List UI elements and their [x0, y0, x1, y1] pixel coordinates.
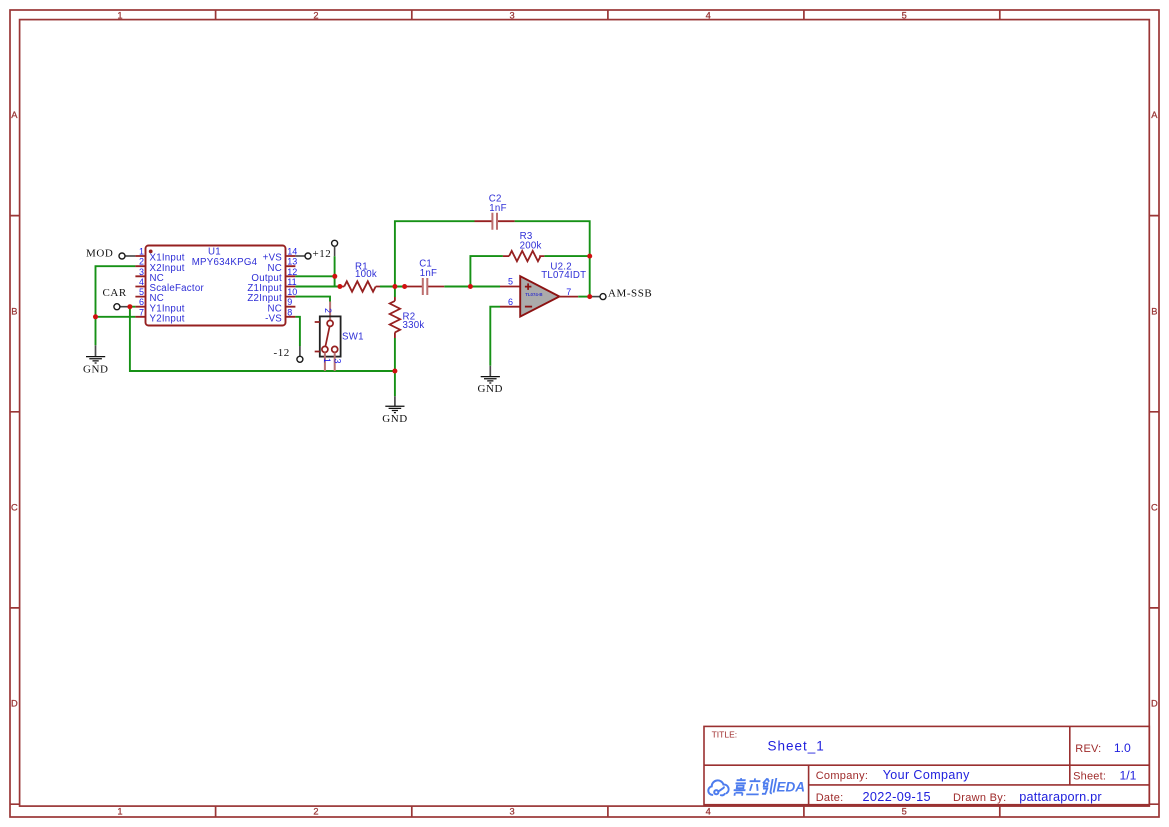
- wire pin2/pin7 of U1 to GND net: [96, 266, 136, 345]
- svg-text:D: D: [1151, 699, 1158, 709]
- svg-text:-VS: -VS: [265, 313, 282, 324]
- title block: [704, 726, 1149, 804]
- wire CAR to pin6 and down to bottom rail: [130, 307, 395, 371]
- svg-text:TL074-B: TL074-B: [525, 292, 542, 297]
- svg-text:Date:: Date:: [816, 792, 844, 804]
- svg-text:7: 7: [139, 307, 144, 317]
- svg-text:EDA: EDA: [777, 780, 806, 795]
- capacitor C1: [405, 258, 445, 295]
- capacitor C2: [475, 194, 515, 230]
- svg-text:TL074IDT: TL074IDT: [541, 270, 586, 281]
- svg-text:14: 14: [287, 247, 297, 257]
- svg-text:8: 8: [287, 307, 292, 317]
- port -12: [274, 346, 303, 362]
- svg-text:3: 3: [510, 11, 515, 21]
- svg-text:3: 3: [333, 358, 343, 363]
- resistor R1: [340, 261, 380, 291]
- svg-text:1: 1: [322, 358, 332, 363]
- svg-text:200k: 200k: [520, 241, 542, 252]
- port CAR: [103, 287, 130, 310]
- switch SW1: [315, 302, 364, 372]
- svg-text:4: 4: [139, 277, 144, 287]
- wire bottom rail to GND: [394, 371, 396, 396]
- svg-text:2: 2: [139, 257, 144, 267]
- svg-text:100k: 100k: [355, 269, 377, 280]
- svg-text:5: 5: [508, 276, 513, 286]
- wire pin11 Z1Input: [295, 286, 340, 288]
- ground GND (left, under U1): [86, 345, 105, 363]
- svg-text:Sheet:: Sheet:: [1073, 770, 1106, 782]
- wire pin8 -VS to -12: [295, 317, 300, 346]
- port +12 at pin14: [295, 248, 331, 260]
- svg-text:1/1: 1/1: [1120, 768, 1137, 782]
- svg-text:C: C: [1151, 502, 1158, 512]
- svg-text:3: 3: [510, 806, 515, 816]
- ground GND (center, below SW1/R2): [385, 396, 404, 412]
- wire R3 left branch: [470, 256, 503, 286]
- wire pin12 Output: [295, 275, 334, 277]
- svg-text:Drawn By:: Drawn By:: [953, 792, 1006, 804]
- svg-text:TITLE:: TITLE:: [712, 729, 738, 739]
- svg-text:1: 1: [139, 247, 144, 257]
- svg-text:10: 10: [287, 287, 297, 297]
- svg-text:5: 5: [902, 806, 907, 816]
- svg-text:MPY634KPG4: MPY634KPG4: [192, 257, 258, 268]
- svg-text:1: 1: [117, 806, 122, 816]
- port +12 (top terminal): [332, 240, 338, 256]
- svg-text:2: 2: [313, 806, 318, 816]
- ground GND (op-amp): [481, 366, 500, 383]
- svg-text:13: 13: [287, 257, 297, 267]
- svg-text:330k: 330k: [403, 320, 425, 331]
- svg-text:-12: -12: [274, 347, 290, 359]
- wire pin10 Z2Input to SW1 pin2: [295, 297, 330, 302]
- svg-text:6: 6: [508, 297, 513, 307]
- svg-text:MOD: MOD: [86, 248, 113, 260]
- svg-text:1.0: 1.0: [1114, 741, 1131, 755]
- svg-text:A: A: [11, 110, 18, 120]
- svg-text:D: D: [11, 699, 18, 709]
- wire R3 right to output column: [544, 255, 589, 257]
- svg-text:2: 2: [313, 11, 318, 21]
- svg-text:AM-SSB: AM-SSB: [608, 288, 652, 300]
- JLCEDA logo: [708, 780, 728, 795]
- svg-text:12: 12: [287, 267, 297, 277]
- svg-text:4: 4: [706, 806, 711, 816]
- resistor R2: [390, 287, 425, 372]
- svg-text:7: 7: [566, 287, 571, 297]
- svg-text:SW1: SW1: [342, 332, 364, 343]
- svg-text:CAR: CAR: [103, 287, 127, 299]
- svg-text:B: B: [1151, 306, 1157, 316]
- svg-text:5: 5: [139, 287, 144, 297]
- svg-text:5: 5: [902, 11, 907, 21]
- svg-text:2022-09-15: 2022-09-15: [863, 790, 931, 804]
- svg-text:Your Company: Your Company: [883, 768, 970, 782]
- svg-text:A: A: [1151, 110, 1158, 120]
- svg-text:1: 1: [117, 11, 122, 21]
- svg-text:9: 9: [287, 297, 292, 307]
- wire op-amp output: [578, 296, 590, 298]
- svg-text:GND: GND: [382, 413, 407, 425]
- port MOD: [86, 248, 135, 260]
- wire node to op-amp pin5: [470, 286, 500, 288]
- wire C2 loop (node A up and across): [395, 221, 590, 286]
- svg-text:11: 11: [287, 277, 296, 287]
- svg-text:Sheet_1: Sheet_1: [768, 739, 825, 754]
- svg-text:4: 4: [706, 11, 711, 21]
- svg-text:C: C: [11, 502, 18, 512]
- wire +12 terminal down to R1 node: [334, 256, 336, 286]
- IC U1 MPY634KPG4: [135, 246, 297, 326]
- wire output column down: [589, 256, 591, 297]
- svg-text:Y2Input: Y2Input: [150, 313, 185, 324]
- svg-text:GND: GND: [83, 363, 108, 375]
- resistor R3: [503, 231, 545, 261]
- svg-text:GND: GND: [478, 383, 503, 395]
- svg-text:REV:: REV:: [1075, 743, 1101, 755]
- junction dots: [93, 254, 592, 374]
- svg-text:+12: +12: [313, 248, 332, 260]
- svg-text:B: B: [11, 306, 17, 316]
- svg-text:Company:: Company:: [816, 770, 869, 782]
- port AM-SSB: [590, 288, 653, 300]
- svg-text:1nF: 1nF: [489, 203, 506, 214]
- wire C1 to pin5 node: [444, 286, 500, 288]
- svg-text:1nF: 1nF: [420, 268, 437, 279]
- svg-text:pattaraporn.pr: pattaraporn.pr: [1019, 790, 1102, 804]
- svg-text:2: 2: [323, 308, 333, 313]
- wire R1 to node: [380, 286, 405, 288]
- svg-text:6: 6: [139, 297, 144, 307]
- op-amp U2.2 TL074IDT: [500, 262, 586, 317]
- svg-text:3: 3: [139, 267, 144, 277]
- wire op-amp pin6 to GND: [490, 307, 500, 366]
